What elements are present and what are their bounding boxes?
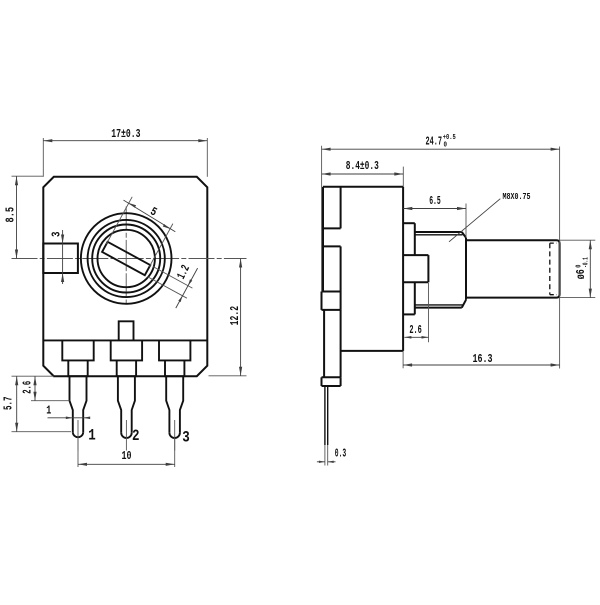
svg-text:2.6: 2.6 [409,323,422,337]
svg-text:3: 3 [49,232,63,238]
svg-text:-0.1: -0.1 [582,257,590,268]
svg-text:M8X0.75: M8X0.75 [503,192,531,202]
svg-text:5.7: 5.7 [1,397,15,411]
svg-text:0: 0 [444,141,448,149]
svg-text:3: 3 [182,428,190,446]
svg-text:1: 1 [88,426,96,444]
svg-text:24.7: 24.7 [426,135,443,149]
svg-text:ø6: ø6 [574,269,588,279]
svg-text:2.6: 2.6 [20,381,34,394]
svg-text:17±0.3: 17±0.3 [111,127,140,141]
svg-text:16.3: 16.3 [473,352,493,366]
svg-text:12.2: 12.2 [228,306,242,326]
svg-text:8.4±0.3: 8.4±0.3 [346,159,379,173]
svg-text:10: 10 [122,449,132,463]
svg-text:2: 2 [132,427,140,445]
svg-text:1: 1 [46,404,51,418]
svg-text:0.3: 0.3 [335,446,347,460]
svg-text:8.5: 8.5 [3,207,17,223]
svg-text:6.5: 6.5 [429,194,441,208]
